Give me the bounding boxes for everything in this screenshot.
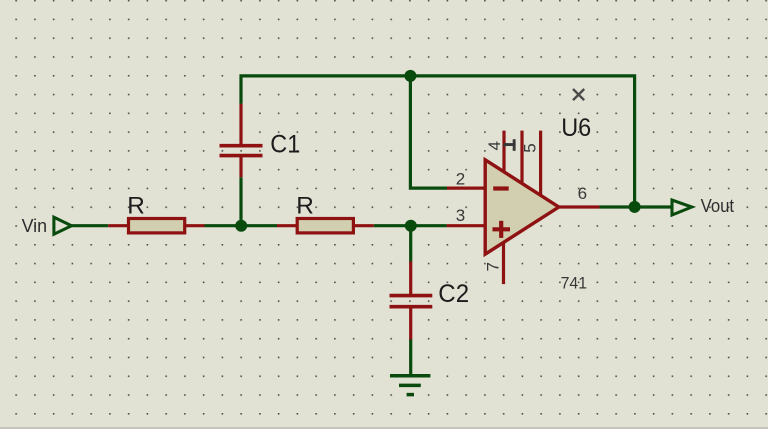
pin lead R2 left — [277, 224, 297, 227]
wire node D to Vout — [635, 205, 672, 208]
op-amp pin 7 lead — [502, 240, 505, 284]
op-amp pin 5 lead — [539, 131, 542, 198]
svg-text:6: 6 — [578, 184, 587, 203]
node A junction — [235, 220, 247, 232]
svg-text:7: 7 — [484, 262, 503, 271]
svg-text:Vout: Vout — [701, 196, 735, 216]
pin lead C1 bottom — [239, 156, 242, 177]
op-amp U6 triangle — [485, 160, 559, 254]
svg-text:5: 5 — [521, 143, 540, 152]
terminal Vout — [672, 200, 692, 215]
svg-text:C2: C2 — [438, 280, 469, 308]
svg-text:2: 2 — [456, 169, 465, 188]
pin lead R1 right — [185, 224, 205, 227]
pin number 1 rotated — [503, 139, 516, 151]
wire pin6 to node D — [600, 205, 635, 208]
wire node C to pin 2 — [410, 81, 447, 188]
op-amp pin 1 lead — [520, 131, 523, 186]
pin lead C2 bottom — [409, 307, 412, 340]
node C feedback junction — [404, 70, 416, 82]
pin lead C1 top — [239, 104, 242, 146]
svg-text:4: 4 — [485, 141, 504, 150]
wire R2 to node B — [374, 224, 447, 227]
op-amp minus input symbol — [493, 186, 509, 190]
wire R1 to node A — [205, 224, 278, 227]
wire Vin to R1 — [72, 224, 109, 227]
pin lead R1 left — [108, 224, 128, 227]
pin lead C2 top — [409, 262, 412, 296]
svg-text:Vin: Vin — [22, 216, 47, 236]
terminal Vin — [54, 217, 72, 234]
feedback wire: C1 top up, across, down to output node — [241, 76, 635, 207]
node B junction — [405, 220, 417, 232]
svg-text:R: R — [296, 192, 314, 219]
svg-text:741: 741 — [561, 274, 588, 293]
resistor R2 — [297, 219, 353, 233]
ground symbol — [390, 374, 430, 378]
wire C1 bottom to node A — [239, 177, 242, 226]
svg-text:U6: U6 — [561, 114, 591, 142]
resistor R1 — [129, 219, 185, 233]
svg-text:3: 3 — [456, 206, 465, 225]
op-amp plus input symbol — [493, 227, 511, 231]
wire C2 to ground — [409, 340, 412, 376]
pin lead op-amp pin 2 — [447, 187, 487, 190]
wire node B to C2 — [409, 226, 412, 262]
svg-text:R: R — [127, 192, 145, 219]
svg-text:C1: C1 — [270, 131, 300, 159]
pin lead op-amp pin 6 output — [556, 205, 600, 208]
pin lead R2 right — [354, 224, 374, 227]
capacitor C1 plates — [220, 144, 263, 148]
op-amp pin 4 lead — [502, 131, 505, 174]
pin lead op-amp pin 3 — [447, 224, 487, 227]
node D output junction — [629, 201, 641, 213]
origin marker x — [573, 89, 584, 100]
capacitor C2 plates — [390, 294, 433, 298]
